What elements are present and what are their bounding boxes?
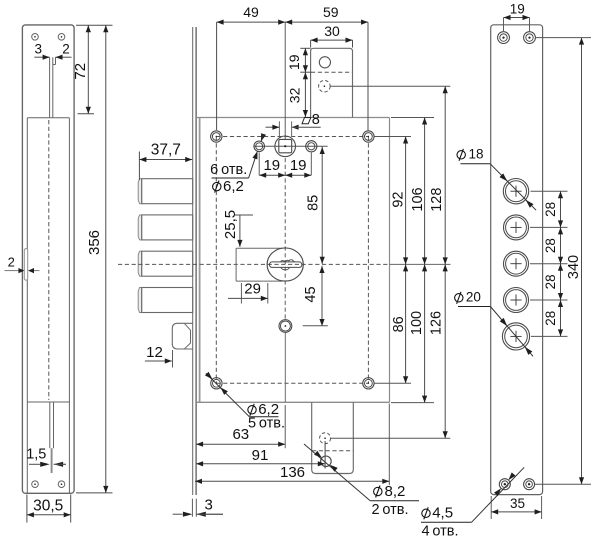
svg-text:2: 2 <box>8 255 15 270</box>
svg-text:59: 59 <box>323 4 339 20</box>
svg-text:106: 106 <box>410 187 426 211</box>
svg-text:37,7: 37,7 <box>151 141 181 158</box>
svg-text:92: 92 <box>391 192 407 208</box>
svg-text:63: 63 <box>232 426 249 443</box>
svg-text:6 отв.: 6 отв. <box>210 162 247 178</box>
svg-text:8,2: 8,2 <box>385 483 406 500</box>
svg-text:18: 18 <box>469 147 484 162</box>
svg-text:1,5: 1,5 <box>26 447 46 463</box>
svg-text:28: 28 <box>543 274 558 289</box>
svg-text:128: 128 <box>429 188 445 212</box>
svg-text:28: 28 <box>543 202 558 217</box>
svg-text:356: 356 <box>86 230 103 255</box>
svg-text:19: 19 <box>290 157 307 174</box>
svg-text:4,5: 4,5 <box>432 505 453 522</box>
svg-text:126: 126 <box>429 311 445 335</box>
svg-text:3: 3 <box>34 42 42 57</box>
svg-text:25,5: 25,5 <box>222 210 239 239</box>
svg-text:19: 19 <box>263 157 280 174</box>
svg-text:6,2: 6,2 <box>223 178 244 195</box>
svg-text:4 отв.: 4 отв. <box>421 524 458 540</box>
svg-text:19: 19 <box>510 1 525 16</box>
svg-text:91: 91 <box>252 447 269 464</box>
svg-text:100: 100 <box>409 311 425 335</box>
svg-text:8: 8 <box>312 112 320 128</box>
svg-text:340: 340 <box>566 255 582 279</box>
svg-text:85: 85 <box>305 195 321 211</box>
svg-text:72: 72 <box>72 63 89 80</box>
svg-text:2 отв.: 2 отв. <box>371 502 408 518</box>
svg-text:136: 136 <box>280 464 305 481</box>
svg-text:30,5: 30,5 <box>33 497 63 514</box>
svg-text:28: 28 <box>543 311 558 326</box>
svg-text:49: 49 <box>243 4 259 20</box>
svg-text:30: 30 <box>324 23 340 39</box>
svg-text:28: 28 <box>543 238 558 253</box>
svg-text:86: 86 <box>391 316 407 332</box>
svg-text:5 отв.: 5 отв. <box>248 415 285 431</box>
svg-text:2: 2 <box>62 41 70 56</box>
svg-text:12: 12 <box>146 344 163 361</box>
svg-text:45: 45 <box>303 286 319 302</box>
svg-text:32: 32 <box>286 87 302 103</box>
svg-text:3: 3 <box>205 497 213 514</box>
svg-text:29: 29 <box>244 281 261 298</box>
svg-text:20: 20 <box>466 290 481 305</box>
svg-text:19: 19 <box>286 54 302 70</box>
svg-text:35: 35 <box>510 496 525 511</box>
